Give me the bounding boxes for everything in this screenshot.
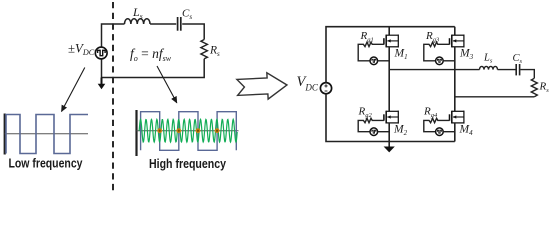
resistor Rs (right circuit) (531, 78, 537, 97)
orange dot 1 (157, 128, 162, 133)
leg1 below M2 to bottom rail (388, 123, 390, 142)
svg-text:M3: M3 (459, 48, 474, 62)
MOSFET M3 (450, 35, 464, 48)
wire driver M1 to leg (377, 60, 389, 62)
wire driver M2 to leg (377, 131, 389, 133)
high frequency plot: horizontal midline (137, 130, 239, 132)
resistor Rs (left circuit) (201, 40, 208, 59)
wire driver M3 to leg (443, 60, 455, 62)
svg-text:Rs: Rs (539, 81, 550, 94)
annotation arrow to High frequency (157, 66, 177, 103)
wire: source bottom to bottom rail (326, 94, 455, 142)
svg-text:Cs: Cs (513, 53, 523, 65)
svg-text:Low frequency: Low frequency (9, 156, 84, 171)
orange dot 4 (215, 128, 220, 133)
wire: left rail of right circuit (326, 27, 455, 83)
leg1 upper wire (drain M1) (388, 27, 390, 36)
svg-text:Rg3: Rg3 (425, 30, 440, 43)
annotation arrow to Low frequency (62, 68, 85, 112)
svg-text:Rg1: Rg1 (360, 30, 374, 43)
svg-text:VDC: VDC (297, 74, 319, 92)
gate resistor Rg3 and loop (424, 42, 450, 61)
svg-text:Ls: Ls (132, 5, 143, 21)
svg-text:Rg2: Rg2 (358, 106, 373, 119)
MOSFET M2 (384, 111, 398, 124)
wire Ls to Cs (498, 69, 516, 71)
svg-text:Cs: Cs (182, 8, 192, 22)
plus sign inside source (324, 84, 327, 87)
gate driver circle M2 (370, 128, 378, 136)
svg-text:M4: M4 (459, 124, 474, 138)
wire: resistor to bottom, bottom rail back to source (102, 59, 205, 78)
leg2 below M4 to bottom rail (454, 123, 456, 142)
high frequency green sine (139, 119, 237, 142)
svg-text:fo = nfsw: fo = nfsw (130, 46, 172, 63)
capacitor Cs (right circuit) (515, 64, 517, 75)
leg2 between M3 and M4 (454, 47, 456, 112)
leg2 upper wire (drain M3) (454, 27, 456, 36)
orange dot 3 (196, 128, 201, 133)
dc source circle (right) (320, 83, 331, 94)
svg-text:Rs: Rs (209, 44, 220, 58)
wire driver M4 to leg (443, 131, 455, 133)
inductor Ls (right circuit) (480, 66, 498, 69)
svg-text:M2: M2 (393, 124, 408, 138)
square-wave glyph inside source (98, 50, 106, 55)
low frequency plot: horizontal midline (5, 133, 88, 135)
leg1 between M1 and node A, down to M2 (388, 47, 390, 112)
MOSFET M4 (450, 111, 464, 124)
gate driver circle M3 (436, 57, 444, 65)
orange dot 2 (176, 128, 181, 133)
node A output wire to Ls (389, 69, 479, 71)
wire: source bottom lead (101, 59, 103, 78)
ground arrow (left circuit) (101, 78, 103, 85)
minus sign inside source (325, 90, 328, 92)
wire: inductor to capacitor (150, 23, 176, 25)
gate driver circle M4 (436, 128, 444, 136)
wire: left circuit top (source to inductor) (102, 24, 125, 47)
gate resistor Rg2 and loop (358, 118, 384, 131)
capacitor Cs (left circuit) (177, 17, 179, 31)
svg-text:Rg4: Rg4 (423, 106, 438, 119)
gate resistor Rg4 and loop (424, 118, 450, 131)
svg-text:High frequency: High frequency (149, 156, 227, 171)
wire Cs to corner, down to Rs (520, 70, 534, 79)
high frequency square wave (141, 112, 237, 151)
low frequency plot: vertical axis (4, 114, 6, 155)
inductor Ls (left circuit) (125, 19, 151, 24)
svg-text:±VDC: ±VDC (68, 41, 95, 57)
wire: capacitor to right corner, down to resistor (182, 24, 204, 40)
ac source circle (left circuit) (95, 47, 107, 59)
gate driver circle M1 (370, 57, 378, 65)
MOSFET M1 (384, 35, 398, 48)
svg-text:Ls: Ls (483, 52, 493, 64)
dashed boundary line (112, 2, 114, 193)
big block arrow (237, 72, 288, 101)
ground (right circuit) (388, 142, 390, 147)
high frequency plot: vertical axis (135, 110, 137, 156)
low frequency square wave (6, 115, 88, 154)
node B return wire (455, 96, 535, 98)
svg-text:M1: M1 (394, 48, 408, 62)
gate resistor Rg1 and loop (358, 42, 384, 61)
